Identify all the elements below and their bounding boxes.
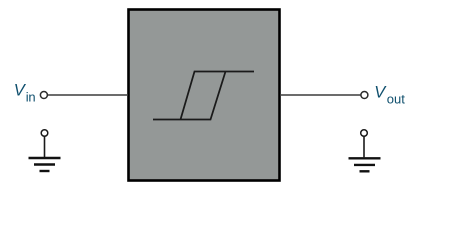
block U1 (Schmitt-trigger block) (129, 10, 280, 181)
ground (right): circle (361, 130, 368, 137)
svg-text:out: out (387, 92, 405, 107)
ground (right): bar 2 (354, 164, 375, 166)
ground (left): vertical lead (44, 137, 46, 158)
wire: input terminal to block (47, 94, 128, 96)
hysteresis symbol: bottom line + right slant (153, 72, 226, 120)
node: output terminal circle (361, 92, 368, 99)
wire: block to output terminal (280, 94, 361, 96)
ground (left): bar 1 (29, 157, 61, 159)
hysteresis symbol: left slant + top line (181, 72, 255, 120)
svg-text:V: V (374, 84, 387, 102)
svg-text:in: in (26, 90, 36, 105)
ground (left): bar 2 (34, 163, 55, 165)
ground (right): bar 3 (360, 170, 370, 172)
ground (left): circle (41, 130, 48, 137)
ground (left): bar 3 (40, 170, 50, 172)
ground (right): vertical lead (363, 137, 365, 158)
node: input terminal circle (40, 92, 47, 99)
ground (right): bar 1 (349, 157, 381, 159)
